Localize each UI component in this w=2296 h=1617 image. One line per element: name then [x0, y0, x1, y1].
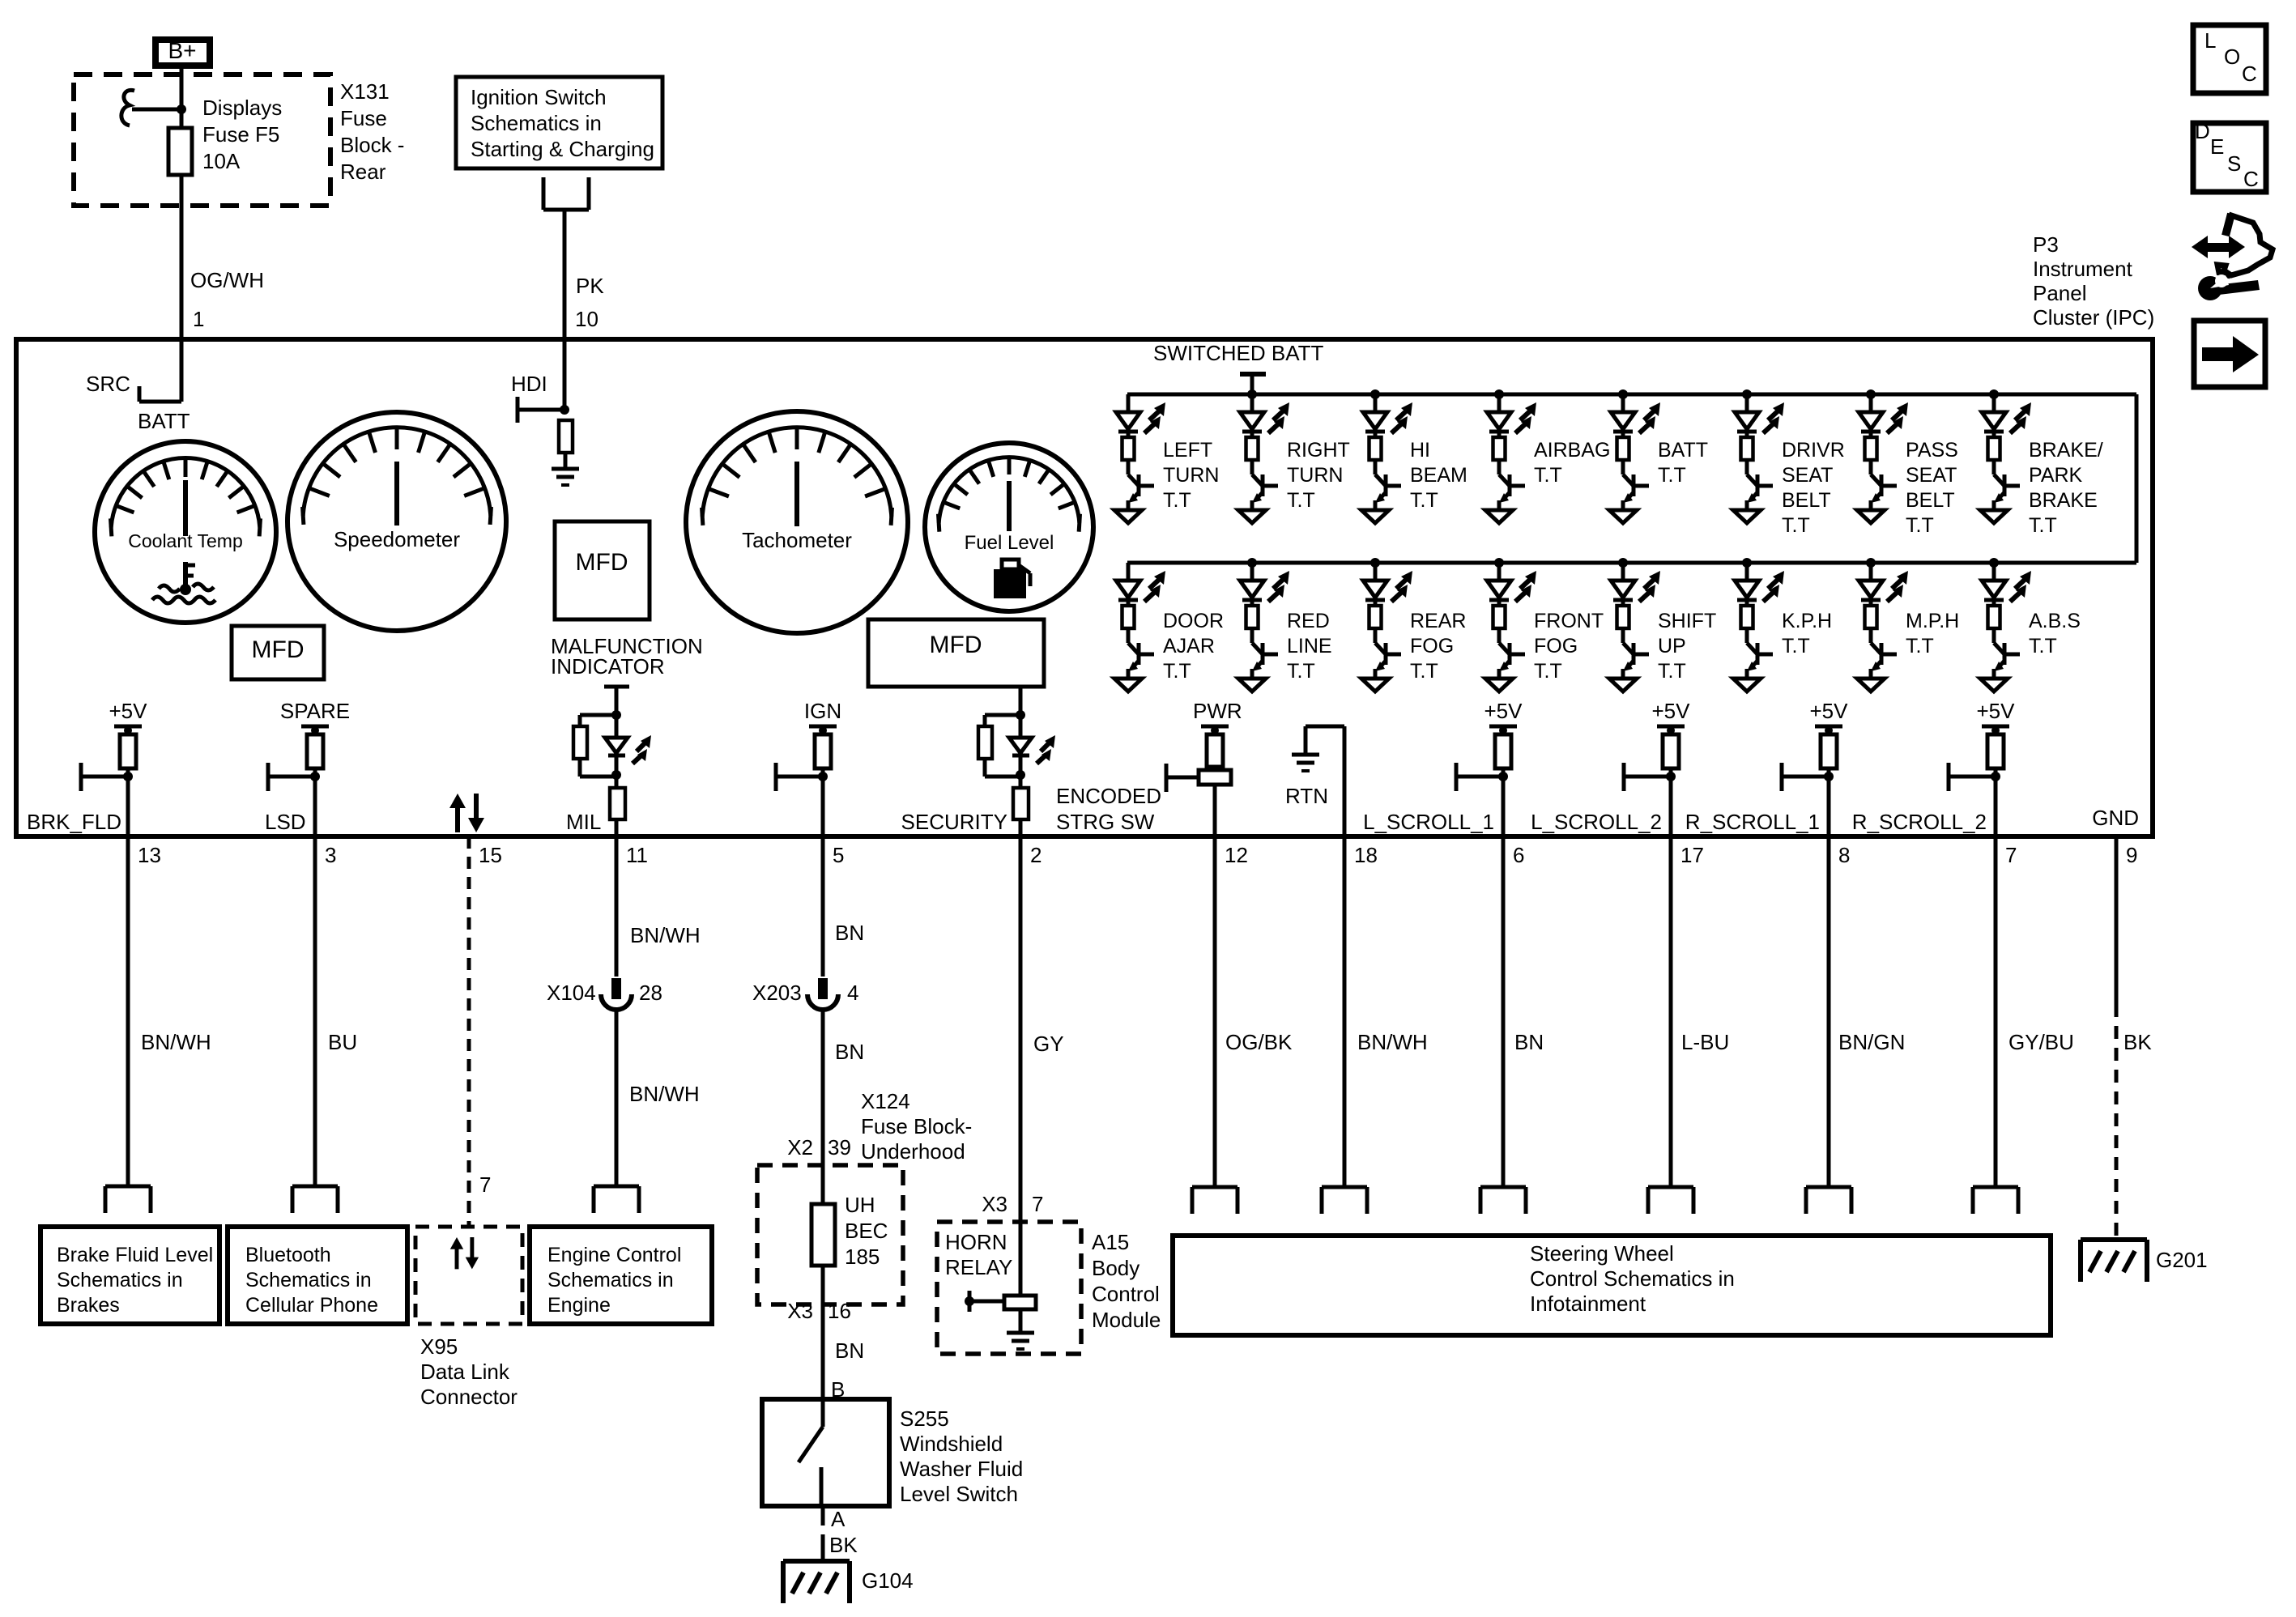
wire BN/WH pin 11 lower segment: [615, 1011, 619, 1186]
fuse block X131 dashed outline: [74, 74, 330, 206]
svg-text:RELAY: RELAY: [945, 1255, 1012, 1279]
junction dot bus2 col 5: [1618, 558, 1628, 568]
svg-text:K.P.H: K.P.H: [1782, 610, 1832, 632]
junction dot SECURITY bottom: [1016, 770, 1025, 780]
wire PK from ignition switch to IPC pin 10: [563, 210, 567, 339]
svg-text:FOG: FOG: [1534, 635, 1578, 657]
coolant temp icon: [183, 562, 188, 586]
telltale indicator row1 RIGHT TURN T.T: [1238, 394, 1289, 523]
connector bracket below ignition switch box: [542, 177, 546, 210]
svg-text:HI: HI: [1410, 439, 1430, 462]
junction dot bus2 col 4: [1494, 558, 1504, 568]
svg-text:Windshield: Windshield: [900, 1432, 1003, 1456]
svg-text:X104: X104: [547, 981, 596, 1005]
svg-text:BN/WH: BN/WH: [141, 1030, 211, 1054]
connector fork above Engine Control box: [594, 1186, 639, 1213]
svg-text:11: 11: [626, 843, 648, 867]
svg-text:SEAT: SEAT: [1906, 464, 1957, 487]
svg-text:7: 7: [1032, 1192, 1043, 1216]
svg-text:Brake Fluid Level: Brake Fluid Level: [57, 1244, 213, 1266]
svg-text:Fuse: Fuse: [340, 106, 387, 130]
horn relay coil: [1019, 1222, 1023, 1296]
box MFD right: [868, 619, 1044, 687]
svg-text:X131: X131: [340, 79, 390, 104]
telltale indicator row2 M.P.H T.T: [1857, 563, 1908, 691]
resistor series SECURITY: [1013, 788, 1029, 819]
svg-text:Rear: Rear: [340, 160, 386, 184]
svg-text:LINE: LINE: [1287, 635, 1332, 657]
telltale indicator row1 BRAKE/ PARK BRAKE T.T: [1980, 394, 2031, 523]
svg-text:BEC: BEC: [845, 1219, 888, 1243]
telltale bus row 1: [1127, 393, 2136, 397]
svg-text:Cluster (IPC): Cluster (IPC): [2033, 305, 2154, 330]
up down arrows inside X95: [450, 1237, 479, 1269]
svg-text:5: 5: [833, 843, 844, 867]
junction dot bus1 col 8: [1989, 389, 1999, 399]
svg-text:Schematics in: Schematics in: [57, 1269, 183, 1291]
svg-text:39: 39: [828, 1135, 851, 1160]
svg-text:T.T: T.T: [1534, 660, 1562, 683]
svg-text:M.P.H: M.P.H: [1906, 610, 1959, 632]
connector fork BN/WH: [1322, 1187, 1367, 1214]
telltale indicator row1 BATT T.T: [1609, 394, 1660, 523]
gauge Speedometer: [288, 412, 506, 631]
connector fork L-BU: [1648, 1187, 1693, 1214]
telltale indicator row2 K.P.H T.T: [1733, 563, 1784, 691]
LED MIL: [615, 715, 619, 738]
ground G104: [783, 1561, 850, 1603]
svg-text:8: 8: [1838, 843, 1850, 867]
telltale indicator row2 SHIFT UP T.T: [1609, 563, 1660, 691]
svg-text:BELT: BELT: [1906, 489, 1955, 512]
fuse UH BEC 185: [811, 1204, 835, 1266]
junction dot bus2 col 8: [1989, 558, 1999, 568]
box MFD left: [232, 626, 324, 679]
telltale indicator row2 RED LINE T.T: [1238, 563, 1289, 691]
svg-text:A.B.S: A.B.S: [2029, 610, 2081, 632]
junction dot bus2 col 6: [1742, 558, 1752, 568]
gauge Coolant Temp: [95, 441, 276, 623]
svg-text:X95: X95: [420, 1334, 458, 1359]
svg-text:T.T: T.T: [1287, 489, 1315, 512]
svg-text:+5V: +5V: [1810, 699, 1849, 723]
lightning arrows MIL: [637, 742, 646, 751]
svg-text:Module: Module: [1092, 1308, 1161, 1332]
svg-text:T.T: T.T: [2029, 635, 2057, 657]
svg-text:Starting & Charging: Starting & Charging: [471, 137, 654, 161]
svg-text:OG/WH: OG/WH: [190, 268, 264, 292]
svg-text:C: C: [2243, 167, 2259, 191]
MIL indicator network: [604, 685, 629, 689]
connector fork OG/BK: [1192, 1187, 1237, 1214]
svg-text:BN: BN: [835, 1040, 864, 1064]
junction dot bus2 col 3: [1370, 558, 1380, 568]
svg-text:Body: Body: [1092, 1256, 1139, 1280]
svg-text:Brakes: Brakes: [57, 1294, 120, 1317]
svg-text:T.T: T.T: [1782, 514, 1810, 537]
svg-text:+5V: +5V: [1977, 699, 2016, 723]
svg-text:Fuse Block-: Fuse Block-: [861, 1114, 972, 1138]
svg-text:X124: X124: [861, 1089, 910, 1113]
up down arrows above pin 15: [449, 794, 484, 832]
svg-text:S: S: [2227, 151, 2241, 176]
pull-up network +5V pin column x=1856: [1456, 726, 1517, 836]
wire through fuse UH BEC 185: [821, 1165, 825, 1204]
net SRC terminal: [180, 339, 184, 402]
svg-text:HDI: HDI: [511, 372, 547, 396]
svg-text:28: 28: [639, 981, 662, 1005]
svg-text:Fuel Level: Fuel Level: [965, 532, 1054, 554]
wire below UH BEC fuse: [821, 1266, 825, 1399]
svg-text:7: 7: [479, 1172, 491, 1197]
connector fork GY/BU: [1973, 1187, 2018, 1214]
svg-text:+5V: +5V: [1652, 699, 1691, 723]
svg-text:Panel: Panel: [2033, 281, 2087, 305]
svg-text:Infotainment: Infotainment: [1530, 1291, 1646, 1316]
svg-text:MIL: MIL: [566, 810, 601, 834]
junction dot bus1 col 4: [1494, 389, 1504, 399]
svg-text:AJAR: AJAR: [1163, 635, 1215, 657]
svg-text:RED: RED: [1287, 610, 1330, 632]
wire BN pin 5 upper segment: [821, 836, 825, 977]
svg-text:BK: BK: [2123, 1030, 2152, 1054]
svg-text:BN/WH: BN/WH: [1357, 1030, 1428, 1054]
connector fork above Brake Fluid box: [105, 1186, 151, 1213]
svg-text:SHIFT: SHIFT: [1658, 610, 1716, 632]
wire from MFD to SECURITY network: [1019, 687, 1023, 715]
IPC box P3 Instrument Panel Cluster: [16, 339, 2153, 836]
svg-text:T.T: T.T: [1287, 660, 1315, 683]
svg-text:10: 10: [575, 307, 598, 331]
svg-text:6: 6: [1513, 843, 1524, 867]
switch arm inside fuse block: [121, 90, 134, 126]
junction dot bus2 col 2: [1247, 558, 1257, 568]
svg-text:X3: X3: [787, 1299, 813, 1323]
svg-text:Coolant Temp: Coolant Temp: [128, 530, 243, 551]
PWR network pin 12: [1201, 725, 1229, 729]
dashed box X95 Data Link Connector: [415, 1227, 522, 1324]
junction dot bus2 col 7: [1866, 558, 1876, 568]
svg-text:Block -: Block -: [340, 133, 404, 157]
svg-text:STRG SW: STRG SW: [1056, 810, 1155, 834]
horn relay contact: [968, 1291, 972, 1312]
fuse F5: [168, 128, 192, 175]
connector fork BN/GN: [1806, 1187, 1851, 1214]
net HDI branch: [563, 339, 567, 410]
svg-text:PK: PK: [576, 274, 604, 298]
junction dot bus1 col 5: [1618, 389, 1628, 399]
ground G201: [2081, 1240, 2147, 1282]
svg-text:L_SCROLL_2: L_SCROLL_2: [1531, 810, 1662, 834]
pull-up network SPARE pin column x=389: [268, 726, 329, 836]
svg-text:DOOR: DOOR: [1163, 610, 1224, 632]
junction dot bus1 col 7: [1866, 389, 1876, 399]
svg-text:A15: A15: [1092, 1230, 1129, 1254]
svg-text:Cellular Phone: Cellular Phone: [245, 1294, 378, 1317]
pull-up network +5V pin column x=2464: [1949, 726, 2009, 836]
wire BN/WH pin 18 to steering wheel box: [1343, 836, 1347, 1187]
svg-text:2: 2: [1030, 843, 1042, 867]
LED SECURITY: [1019, 715, 1023, 738]
svg-text:IGN: IGN: [804, 699, 841, 723]
wire from B+ to fuse F5: [180, 69, 184, 128]
box MFD malfunction indicator display: [555, 521, 650, 619]
svg-text:UP: UP: [1658, 635, 1686, 657]
telltale indicator row1 AIRBAG T.T: [1485, 394, 1536, 523]
wire BN/WH pin 13 to Brake Fluid box: [126, 836, 130, 1186]
svg-text:Washer Fluid: Washer Fluid: [900, 1457, 1023, 1481]
svg-text:Displays: Displays: [202, 96, 282, 120]
svg-text:Control: Control: [1092, 1282, 1160, 1306]
svg-text:BN: BN: [835, 921, 864, 945]
svg-text:BN: BN: [835, 1338, 864, 1363]
pull-up network IGN pin column x=1016: [776, 726, 837, 836]
svg-text:7: 7: [2005, 843, 2017, 867]
wire BU pin 3 to Bluetooth box: [313, 836, 317, 1186]
svg-text:12: 12: [1225, 843, 1248, 867]
svg-text:R_SCROLL_1: R_SCROLL_1: [1685, 810, 1820, 834]
switch S255 contacts: [821, 1399, 825, 1427]
dashed wire BK pin 9 to ground G201: [2115, 836, 2119, 1004]
wire GY/BU pin 7 to steering wheel box: [1994, 836, 1998, 1187]
svg-text:T.T: T.T: [2029, 514, 2057, 537]
svg-text:SRC: SRC: [86, 372, 130, 396]
icon wrench and arrows: [2226, 214, 2231, 236]
dashed box X124 Fuse Block-Underhood: [757, 1165, 903, 1304]
svg-text:MFD: MFD: [930, 632, 982, 658]
svg-text:BEAM: BEAM: [1410, 464, 1467, 487]
svg-text:P3: P3: [2033, 232, 2059, 257]
junction dot bus1 col 3: [1370, 389, 1380, 399]
svg-text:R_SCROLL_2: R_SCROLL_2: [1852, 810, 1987, 834]
svg-text:DRIVR: DRIVR: [1782, 439, 1845, 462]
box Engine Control Schematics in Engine: [530, 1227, 712, 1324]
svg-text:10A: 10A: [202, 149, 241, 173]
connector fork BN: [1480, 1187, 1526, 1214]
svg-text:MFD: MFD: [576, 549, 628, 576]
dashed box horn relay in body control module: [937, 1222, 1081, 1354]
gauge Tachometer: [686, 411, 908, 633]
svg-text:Schematics in: Schematics in: [471, 111, 602, 135]
svg-text:OG/BK: OG/BK: [1225, 1030, 1293, 1054]
wire BN pin 6 to steering wheel box: [1502, 836, 1506, 1187]
svg-text:GY: GY: [1033, 1032, 1064, 1056]
box Steering Wheel Control Schematics in Infotainment: [1173, 1236, 2051, 1335]
junction dot bus1 col 2: [1247, 389, 1257, 399]
resistor on HDI net: [559, 420, 573, 453]
svg-text:B+: B+: [168, 38, 196, 63]
wire BN/GN pin 8 to steering wheel box: [1827, 836, 1831, 1187]
svg-text:E: E: [2210, 134, 2224, 159]
svg-text:185: 185: [845, 1245, 880, 1269]
telltale indicator row2 A.B.S T.T: [1980, 563, 2031, 691]
svg-text:T.T: T.T: [1163, 660, 1191, 683]
svg-text:L: L: [2204, 28, 2216, 53]
svg-text:PWR: PWR: [1193, 699, 1242, 723]
svg-text:1: 1: [193, 307, 204, 331]
pull-up network +5V pin column x=2258: [1782, 726, 1842, 836]
svg-text:16: 16: [828, 1299, 851, 1323]
svg-text:Bluetooth: Bluetooth: [245, 1244, 331, 1266]
lightning arrows SECURITY: [1041, 742, 1050, 751]
icon box arrow: [2194, 321, 2265, 387]
gauge Fuel Level: [925, 443, 1093, 611]
svg-text:T.T: T.T: [1163, 489, 1191, 512]
svg-text:HORN: HORN: [945, 1230, 1007, 1254]
svg-text:ENCODED: ENCODED: [1056, 784, 1161, 808]
svg-text:SPARE: SPARE: [280, 699, 350, 723]
svg-text:T.T: T.T: [1906, 514, 1934, 537]
svg-text:X2: X2: [787, 1135, 813, 1160]
svg-text:INDICATOR: INDICATOR: [551, 654, 665, 679]
svg-text:PASS: PASS: [1906, 439, 1958, 462]
svg-text:T.T: T.T: [1906, 635, 1934, 657]
svg-text:REAR: REAR: [1410, 610, 1466, 632]
telltale bus row 2: [1127, 561, 2136, 565]
ground inside horn relay box: [1019, 1309, 1023, 1333]
svg-text:T.T: T.T: [1410, 660, 1438, 683]
svg-text:D: D: [2195, 119, 2210, 143]
svg-text:Fuse F5: Fuse F5: [202, 122, 279, 147]
svg-text:4: 4: [847, 981, 858, 1005]
wire BK to ground G104: [821, 1506, 825, 1526]
wire BN/WH pin 11 upper segment: [615, 836, 619, 977]
svg-text:Tachometer: Tachometer: [742, 528, 852, 552]
svg-text:15: 15: [479, 843, 502, 867]
svg-text:O: O: [2224, 45, 2240, 69]
svg-text:LSD: LSD: [265, 810, 306, 834]
svg-text:G201: G201: [2156, 1248, 2208, 1272]
resistor parallel MIL: [573, 726, 587, 759]
svg-text:GY/BU: GY/BU: [2008, 1030, 2074, 1054]
svg-text:BN/WH: BN/WH: [629, 1082, 700, 1106]
svg-text:9: 9: [2126, 843, 2137, 867]
svg-text:BU: BU: [328, 1030, 357, 1054]
svg-text:TURN: TURN: [1287, 464, 1343, 487]
telltale indicator row1 DRIVR SEAT BELT T.T: [1733, 394, 1784, 523]
svg-text:RIGHT: RIGHT: [1287, 439, 1350, 462]
svg-text:SECURITY: SECURITY: [901, 810, 1007, 834]
svg-text:FRONT: FRONT: [1534, 610, 1604, 632]
svg-text:RTN: RTN: [1285, 784, 1328, 808]
svg-text:3: 3: [325, 843, 336, 867]
pull-up network +5V pin column x=2063: [1624, 726, 1685, 836]
connector fork above Bluetooth box: [292, 1186, 338, 1213]
icon box LOC: [2193, 25, 2266, 93]
svg-text:18: 18: [1354, 843, 1378, 867]
svg-text:Connector: Connector: [420, 1385, 518, 1409]
svg-text:T.T: T.T: [1410, 489, 1438, 512]
box Brake Fluid Level Schematics in Brakes: [40, 1227, 219, 1324]
svg-text:Control Schematics in: Control Schematics in: [1530, 1266, 1735, 1291]
svg-text:BRAKE: BRAKE: [2029, 489, 2098, 512]
svg-text:Instrument: Instrument: [2033, 257, 2133, 281]
svg-text:BRAKE/: BRAKE/: [2029, 439, 2103, 462]
svg-text:C: C: [2242, 62, 2257, 86]
fuel pump icon: [994, 569, 1026, 598]
svg-text:G104: G104: [862, 1568, 914, 1593]
svg-text:BELT: BELT: [1782, 489, 1831, 512]
resistor series MIL: [610, 788, 625, 819]
resistor parallel SECURITY: [978, 726, 992, 759]
connector X104 pin 28: [601, 978, 632, 1010]
svg-text:Level Switch: Level Switch: [900, 1482, 1018, 1506]
wire OG/BK pin 12 to steering wheel box: [1213, 836, 1217, 1187]
svg-text:Engine Control: Engine Control: [547, 1244, 681, 1266]
wire L-BU pin 17 to steering wheel box: [1669, 836, 1673, 1187]
telltale indicator row2 REAR FOG T.T: [1361, 563, 1412, 691]
svg-text:SWITCHED BATT: SWITCHED BATT: [1153, 341, 1324, 365]
svg-text:Data Link: Data Link: [420, 1360, 510, 1384]
svg-text:BN: BN: [1514, 1030, 1544, 1054]
svg-text:GND: GND: [2092, 806, 2139, 830]
telltale indicator row1 LEFT TURN T.T: [1114, 394, 1165, 523]
svg-text:BATT: BATT: [1658, 439, 1708, 462]
svg-text:AIRBAG: AIRBAG: [1534, 439, 1610, 462]
telltale box right edge: [2135, 394, 2139, 563]
svg-text:17: 17: [1680, 843, 1704, 867]
wire GY pin 2 to horn relay: [1019, 836, 1023, 1222]
svg-text:Schematics in: Schematics in: [245, 1269, 372, 1291]
svg-text:MFD: MFD: [252, 636, 305, 663]
svg-text:S255: S255: [900, 1406, 949, 1431]
svg-text:T.T: T.T: [1782, 635, 1810, 657]
SWITCHED BATT feed stub: [1240, 372, 1266, 377]
svg-text:UH: UH: [845, 1193, 875, 1217]
telltale indicator row2 FRONT FOG T.T: [1485, 563, 1536, 691]
svg-text:T.T: T.T: [1534, 464, 1562, 487]
telltale indicator row1 HI BEAM T.T: [1361, 394, 1412, 523]
svg-text:FOG: FOG: [1410, 635, 1454, 657]
svg-text:Underhood: Underhood: [861, 1139, 965, 1164]
svg-text:T.T: T.T: [1658, 660, 1686, 683]
wire switch to junction: [132, 108, 181, 112]
box S255 Windshield Washer Fluid Level Switch: [762, 1399, 889, 1506]
box Ignition Switch Schematics in Starting & Charging: [456, 77, 662, 168]
dashed wire pin 15 to X95 data link connector: [467, 836, 471, 1227]
svg-text:A: A: [831, 1507, 846, 1531]
svg-text:BN/WH: BN/WH: [630, 923, 701, 947]
svg-text:BN/GN: BN/GN: [1838, 1030, 1905, 1054]
svg-text:Engine: Engine: [547, 1294, 611, 1317]
telltale indicator row1 PASS SEAT BELT T.T: [1857, 394, 1908, 523]
svg-text:Schematics in: Schematics in: [547, 1269, 674, 1291]
svg-text:X203: X203: [752, 981, 802, 1005]
svg-text:T.T: T.T: [1658, 464, 1686, 487]
svg-text:+5V: +5V: [1485, 699, 1523, 723]
svg-text:BRK_FLD: BRK_FLD: [27, 810, 121, 834]
RTN ground net pin 18: [1343, 726, 1347, 836]
wire OG/WH from fuse to IPC pin 1: [180, 175, 184, 339]
pull-up network +5V pin column x=158: [81, 726, 142, 836]
svg-text:LEFT: LEFT: [1163, 439, 1212, 462]
junction dot MIL bottom: [611, 770, 621, 780]
svg-text:Speedometer: Speedometer: [334, 527, 460, 551]
wire BN pin 5 to fuse block underhood: [821, 1011, 825, 1165]
svg-text:13: 13: [138, 843, 161, 867]
svg-text:X3: X3: [982, 1192, 1007, 1216]
svg-text:L_SCROLL_1: L_SCROLL_1: [1363, 810, 1494, 834]
svg-text:Ignition Switch: Ignition Switch: [471, 85, 607, 109]
connector X203 pin 4: [807, 978, 838, 1010]
power node B+: [155, 40, 210, 66]
ground symbol on HDI net: [552, 469, 579, 485]
junction dot at fuse F5 input: [177, 104, 186, 114]
telltale indicator row2 DOOR AJAR T.T: [1114, 563, 1165, 691]
svg-text:BATT: BATT: [138, 409, 190, 433]
svg-text:SEAT: SEAT: [1782, 464, 1833, 487]
svg-text:Steering Wheel: Steering Wheel: [1530, 1241, 1674, 1266]
